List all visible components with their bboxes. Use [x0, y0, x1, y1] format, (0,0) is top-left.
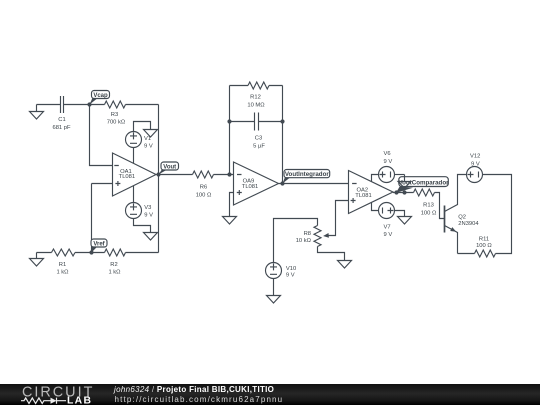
svg-text:TL081: TL081	[355, 193, 371, 199]
svg-text:R12: R12	[250, 94, 261, 100]
svg-text:V10: V10	[286, 266, 296, 272]
svg-text:Vref: Vref	[93, 241, 105, 247]
svg-text:R11: R11	[479, 236, 489, 242]
svg-text:2N3904: 2N3904	[458, 221, 479, 227]
svg-text:10 kΩ: 10 kΩ	[296, 238, 312, 244]
svg-text:9 V: 9 V	[384, 159, 393, 165]
svg-text:C3: C3	[255, 135, 262, 141]
svg-text:V6: V6	[384, 151, 391, 157]
svg-text:100 Ω: 100 Ω	[421, 210, 437, 216]
svg-text:john6324 / Projeto Final BIB,C: john6324 / Projeto Final BIB,CUKI,TITIO	[113, 385, 274, 394]
svg-text:700 kΩ: 700 kΩ	[107, 119, 126, 125]
svg-text:C1: C1	[58, 117, 65, 123]
svg-text:5 µF: 5 µF	[253, 143, 265, 149]
svg-text:9 V: 9 V	[286, 272, 295, 278]
svg-text:Vout: Vout	[163, 164, 176, 170]
svg-text:VoutIntegrador: VoutIntegrador	[285, 171, 329, 178]
svg-text:VoutComparador: VoutComparador	[398, 179, 449, 186]
svg-text:R1: R1	[59, 262, 66, 268]
svg-text:R3: R3	[111, 112, 118, 118]
svg-text:9 V: 9 V	[471, 162, 480, 168]
svg-text:LAB: LAB	[67, 396, 92, 405]
svg-text:Q2: Q2	[458, 214, 466, 220]
svg-text:Vcap: Vcap	[93, 93, 108, 99]
svg-text:R13: R13	[423, 202, 434, 208]
svg-text:V7: V7	[384, 225, 391, 231]
svg-text:100 Ω: 100 Ω	[196, 192, 212, 198]
svg-text:9 V: 9 V	[384, 232, 393, 238]
svg-text:V3: V3	[144, 205, 151, 211]
svg-text:V12: V12	[470, 154, 480, 160]
svg-text:9 V: 9 V	[144, 212, 153, 218]
svg-text:TL081: TL081	[242, 184, 258, 190]
svg-text:R8: R8	[304, 231, 311, 237]
svg-text:1 kΩ: 1 kΩ	[108, 269, 121, 275]
svg-text:9 V: 9 V	[144, 143, 153, 149]
svg-text:R6: R6	[200, 184, 207, 190]
svg-text:681 pF: 681 pF	[52, 125, 71, 131]
svg-text:TL081: TL081	[119, 174, 135, 180]
svg-text:V1: V1	[144, 136, 151, 142]
svg-text:R2: R2	[110, 262, 117, 268]
svg-text:http://circuitlab.com/ckmru62a: http://circuitlab.com/ckmru62a7pnnu	[115, 395, 284, 404]
svg-text:1 kΩ: 1 kΩ	[56, 269, 69, 275]
svg-text:100 Ω: 100 Ω	[476, 243, 492, 249]
svg-text:10 MΩ: 10 MΩ	[247, 102, 265, 108]
